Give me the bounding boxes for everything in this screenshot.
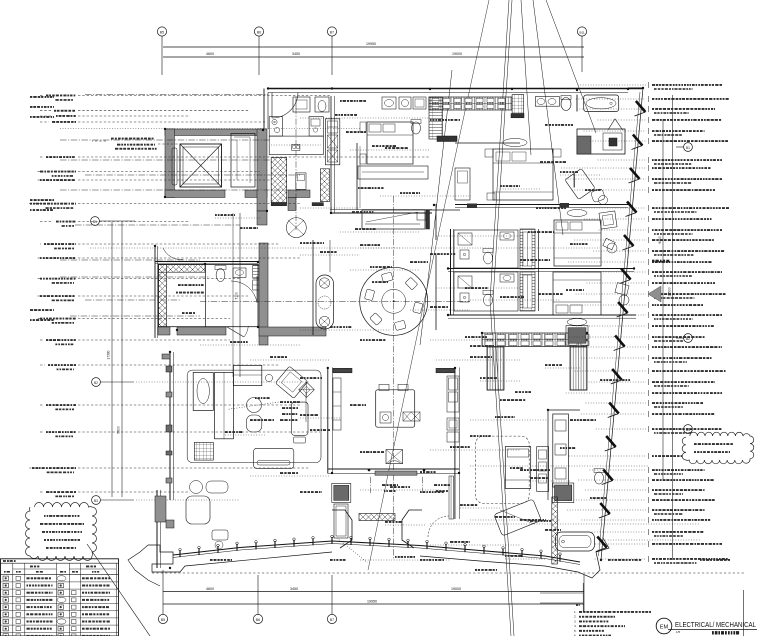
foyer lower cabinet	[334, 504, 348, 538]
wardrobe ladder strip B	[520, 272, 535, 311]
svg-text:1.: 1.	[574, 610, 577, 614]
living text leader	[229, 402, 279, 409]
bed3 chair	[607, 243, 617, 253]
living wall jambs	[166, 366, 172, 372]
round stool	[265, 374, 272, 381]
right inner labels	[545, 124, 548, 126]
hallway wall vertical center-left	[259, 243, 268, 345]
left vertical dimension 7100	[239, 213, 241, 377]
fan leader line 4	[533, 0, 563, 235]
hall right cabinet	[447, 376, 459, 412]
wall bedroom1 left	[330, 96, 332, 213]
massage bed dashed zone	[475, 436, 529, 503]
hall right lining hatch	[449, 476, 454, 519]
bedroom1 bed	[367, 122, 413, 164]
top segment dimensions	[163, 56, 584, 58]
kitchen hatch strip B	[320, 169, 329, 202]
closet bottom walls	[487, 389, 504, 391]
foyer gray block	[334, 485, 349, 500]
bottom overall dimension 19950	[163, 603, 584, 605]
kitchen hatch strip A	[271, 158, 286, 203]
axis v1	[295, 97, 297, 230]
svg-text:19950: 19950	[366, 42, 376, 46]
facade teeth	[636, 101, 646, 112]
sofa back vertical	[215, 373, 234, 439]
upper bathtub	[584, 95, 619, 112]
sideboard	[362, 210, 425, 229]
master bath vanity	[553, 414, 569, 487]
maid room walls	[158, 264, 258, 326]
wall stub bedroom2	[573, 174, 575, 188]
bedroom wall y204	[455, 204, 630, 206]
title vertical rule	[743, 590, 745, 636]
revision cloud left	[26, 503, 97, 561]
corridor wall upper-left	[263, 89, 265, 130]
top outer wall	[268, 88, 643, 90]
maid room top wall	[155, 261, 258, 263]
sofa chaise	[193, 373, 213, 411]
axis h3	[60, 159, 270, 161]
axis h6	[75, 224, 240, 226]
kitchen left counter	[269, 117, 282, 136]
armchair center round	[247, 398, 262, 413]
svg-text:4600: 4600	[206, 52, 214, 56]
tv room walls	[577, 129, 625, 154]
left vertical dimension 5600	[121, 222, 123, 497]
maid room texts	[178, 284, 181, 286]
bedroom1 bench	[358, 166, 428, 179]
living rug outline	[187, 370, 321, 462]
closet top hatch	[482, 333, 587, 347]
bedroom1 toilet	[412, 122, 421, 134]
bottom segment dimensions	[163, 591, 584, 593]
tv room roof lines	[608, 119, 615, 130]
chaise right	[292, 402, 309, 435]
bed4	[553, 272, 601, 315]
svg-text:1/5: 1/5	[676, 630, 681, 634]
svg-text:B5: B5	[161, 618, 165, 622]
hall left wall	[327, 367, 329, 473]
junction dots	[267, 87, 269, 89]
top overall dimension 19950	[163, 46, 584, 48]
bottom grid tick right	[583, 575, 585, 612]
hall bottom wall	[328, 468, 460, 470]
console oval	[316, 275, 334, 329]
left vertical dimension 17300	[111, 222, 113, 497]
bath4 fixtures	[454, 272, 518, 311]
long dotted y470	[470, 465, 648, 467]
svg-text:B1: B1	[686, 146, 690, 150]
rail ellipse light	[503, 139, 527, 147]
long dotted y524	[430, 523, 700, 525]
right grid bubble row3	[684, 425, 693, 434]
equipment panel	[512, 95, 524, 114]
top grid tick B6	[258, 36, 260, 75]
bottom grid tick B5	[162, 570, 164, 614]
svg-text:17300: 17300	[107, 350, 111, 359]
second shaft	[231, 134, 255, 188]
living text block	[280, 401, 283, 403]
balcony slab edge right	[420, 538, 609, 578]
kitchen bottom counter	[269, 136, 323, 154]
corridor wall x436	[435, 204, 437, 240]
hall lower wall	[259, 327, 326, 336]
legend table	[1, 559, 119, 636]
dining table	[360, 267, 428, 335]
right annotation rows	[652, 84, 655, 86]
bath divider wall	[576, 95, 578, 112]
svg-text:B7: B7	[330, 30, 334, 34]
living left wall lower	[156, 490, 158, 568]
bottom grid tick B6	[257, 575, 259, 614]
long dotted y248	[90, 247, 600, 249]
svg-text:19000: 19000	[451, 587, 461, 591]
balcony slab edge left	[148, 545, 332, 572]
hall top wall	[330, 212, 432, 214]
sofa top horizontal	[233, 365, 261, 385]
fan leader line 2b	[493, 0, 514, 636]
top grid bubble B11	[577, 27, 586, 36]
top grid tick B5	[161, 36, 163, 75]
wardrobe ladder strip A	[520, 229, 535, 269]
dining center dot	[393, 301, 395, 303]
left grid bubble b	[92, 378, 101, 387]
bedroom wall y315	[448, 314, 636, 316]
hall right small box	[447, 418, 459, 430]
bed2 side tables	[485, 149, 493, 157]
bottom grid tick B7	[331, 575, 333, 614]
right grid bubble row2	[684, 334, 693, 343]
facade outer line	[601, 88, 643, 560]
property dashed line	[152, 572, 744, 574]
svg-text:4600: 4600	[206, 587, 214, 591]
bed4 ottoman	[567, 319, 587, 326]
long dotted y540	[600, 539, 700, 541]
entry vestibule gray block	[257, 211, 267, 225]
long dotted y128	[60, 128, 360, 130]
elevator shaft walls	[165, 129, 263, 136]
wall below shaft	[288, 190, 310, 198]
master bathtub	[556, 532, 595, 551]
maid bath door arc	[231, 281, 257, 303]
massage bed	[505, 447, 530, 489]
closet right hatch	[570, 347, 587, 390]
hall island table	[376, 390, 415, 427]
top grid tick B11	[581, 36, 583, 72]
axis h7	[60, 259, 200, 261]
bed2 middle	[493, 149, 553, 200]
fan leader line 2	[490, 0, 511, 636]
laundry boxes	[429, 97, 443, 139]
extra plan dotted leaders	[300, 117, 430, 119]
svg-text:B5: B5	[160, 30, 164, 34]
corridor long wall	[455, 142, 520, 144]
maid area bottom wall	[177, 327, 226, 335]
closet dark block	[568, 328, 586, 344]
fan leader line 3	[521, 0, 531, 155]
fan leader line 5	[546, 0, 596, 133]
elevator vent shaft	[172, 148, 177, 185]
left annotation rows	[40, 95, 43, 97]
entry threshold gray	[375, 471, 417, 475]
bed2 vanity	[455, 168, 470, 200]
chandelier circle	[286, 218, 306, 238]
kitchen dark bars	[271, 203, 286, 206]
hall right wall extension	[454, 474, 456, 520]
title EM bubble	[656, 618, 672, 634]
notes leader	[582, 583, 584, 612]
far left tiny labels	[30, 96, 32, 98]
svg-text:11500: 11500	[668, 287, 672, 296]
hall black bar right	[436, 368, 455, 373]
axis h1	[85, 94, 268, 96]
svg-text:B11: B11	[579, 30, 584, 34]
upper bath toilet	[561, 98, 571, 111]
bottom grid bubble B7	[327, 614, 336, 623]
facade top corner	[628, 87, 643, 89]
svg-text:3.: 3.	[574, 619, 577, 623]
fan leader line 1	[368, 0, 489, 570]
svg-text:B1: B1	[93, 220, 97, 224]
svg-text:5.: 5.	[574, 629, 577, 633]
bed4 chair	[615, 283, 629, 296]
maid corridor door arc	[163, 248, 183, 260]
entry bay portal	[332, 510, 352, 548]
svg-text:ELECTRICAL/ MECHANICAL: ELECTRICAL/ MECHANICAL	[675, 620, 756, 629]
axis h10	[70, 315, 200, 317]
right vertical dimension 11500	[672, 95, 674, 560]
laundry strip top	[429, 97, 512, 110]
entry dotted diagonal	[337, 538, 368, 563]
dining axis horizontal	[200, 300, 470, 302]
kitchen right counter	[309, 117, 323, 136]
kitchen appliance row	[382, 97, 396, 109]
bedroom wall jambs	[467, 204, 477, 209]
bed3	[554, 220, 601, 266]
armchair rotated	[275, 366, 308, 398]
balcony rail	[173, 541, 580, 562]
closet left hatch	[487, 347, 504, 390]
compass diamond	[299, 382, 315, 398]
top grid bubble B6	[254, 27, 263, 36]
revision cloud right2	[682, 432, 754, 464]
door arc terrace right	[428, 516, 449, 537]
left grid bubble c	[92, 496, 101, 505]
bottom grid bubble B6	[253, 614, 262, 623]
console wall	[312, 240, 314, 335]
tv room inner	[603, 133, 622, 150]
living left wall	[169, 352, 171, 500]
svg-text:B7: B7	[330, 618, 334, 622]
upper bath sink	[535, 97, 559, 107]
balcony posts	[179, 550, 181, 557]
hall black bar left	[333, 368, 352, 373]
bath wall vertical x539	[538, 229, 540, 311]
top grid bubble B5	[157, 27, 166, 36]
top grid bubble B7	[327, 27, 336, 36]
elevator labels mid	[111, 138, 114, 140]
svg-text:EM: EM	[660, 624, 669, 630]
bedroom wall y268	[448, 268, 634, 270]
axis h8	[60, 276, 210, 278]
svg-text:B6: B6	[256, 618, 260, 622]
extra labels near leaders	[335, 114, 338, 116]
shower top	[293, 97, 310, 112]
axis h2	[60, 139, 270, 141]
bath3 fixtures	[454, 230, 518, 268]
notes list	[576, 604, 578, 606]
service shaft ladder	[253, 265, 261, 278]
master dark block	[555, 485, 572, 501]
svg-text:2.: 2.	[574, 615, 577, 619]
axis h9	[85, 299, 180, 301]
master bath walls	[547, 410, 549, 500]
hall left cabinet	[333, 378, 341, 430]
facade bold label	[652, 260, 655, 263]
svg-text:19950: 19950	[367, 599, 377, 603]
hall niche statue	[386, 450, 403, 464]
bottom left corner step	[128, 545, 160, 586]
svg-text:4.: 4.	[574, 624, 577, 628]
hall right wall	[454, 367, 456, 473]
maid room hatched wall	[158, 264, 166, 326]
elevator car	[180, 144, 222, 187]
piano grid box	[194, 442, 213, 460]
master wc	[595, 472, 604, 484]
fridge	[296, 173, 306, 189]
bath wall vertical x450	[450, 229, 452, 315]
svg-text:19000: 19000	[452, 52, 462, 56]
armchair bedroom2	[565, 168, 595, 199]
svg-text:5600: 5600	[117, 426, 121, 434]
extra tiny leaders 2	[215, 217, 260, 219]
lounge chairs lower	[190, 481, 203, 494]
entry door arc top	[271, 93, 273, 119]
master hatch wall	[552, 497, 558, 564]
entry text	[382, 484, 385, 486]
black counter bar	[437, 136, 457, 142]
plan labels scatter	[340, 100, 342, 102]
bedroom1 wardrobe rail	[356, 143, 358, 210]
right grid bubble row1	[684, 143, 693, 152]
right vertical dimension 9000	[662, 120, 664, 480]
axis h4	[85, 174, 300, 176]
vanity column 2	[537, 447, 549, 492]
kitchen tall cabinet	[325, 119, 339, 165]
dining axis vertical	[393, 196, 395, 560]
bed3 ottoman	[567, 210, 587, 217]
gray triangle marker	[648, 286, 661, 302]
maid door leaf	[227, 327, 244, 337]
left outer wall maid area	[154, 246, 156, 338]
svg-text:B6: B6	[257, 30, 261, 34]
living wall gray blocks	[155, 496, 166, 522]
recliner	[494, 499, 542, 536]
svg-text:3450: 3450	[290, 587, 298, 591]
coffee table	[254, 448, 294, 468]
wc top	[315, 97, 329, 112]
entry bay hatch	[359, 514, 395, 521]
svg-text:B3: B3	[94, 499, 98, 503]
svg-text:B2: B2	[94, 381, 98, 385]
entry dim ticks	[369, 477, 371, 493]
fan leader line 6	[420, 70, 452, 345]
axis h5	[60, 189, 300, 191]
maid bath fixtures	[216, 269, 225, 282]
svg-text:3450: 3450	[292, 52, 300, 56]
left grid bubble a	[91, 217, 100, 226]
cloud leader diagonal	[87, 544, 150, 636]
dressing desk	[599, 211, 617, 229]
bottom grid bubble B5	[158, 614, 167, 623]
top grid tick B7	[331, 36, 333, 75]
